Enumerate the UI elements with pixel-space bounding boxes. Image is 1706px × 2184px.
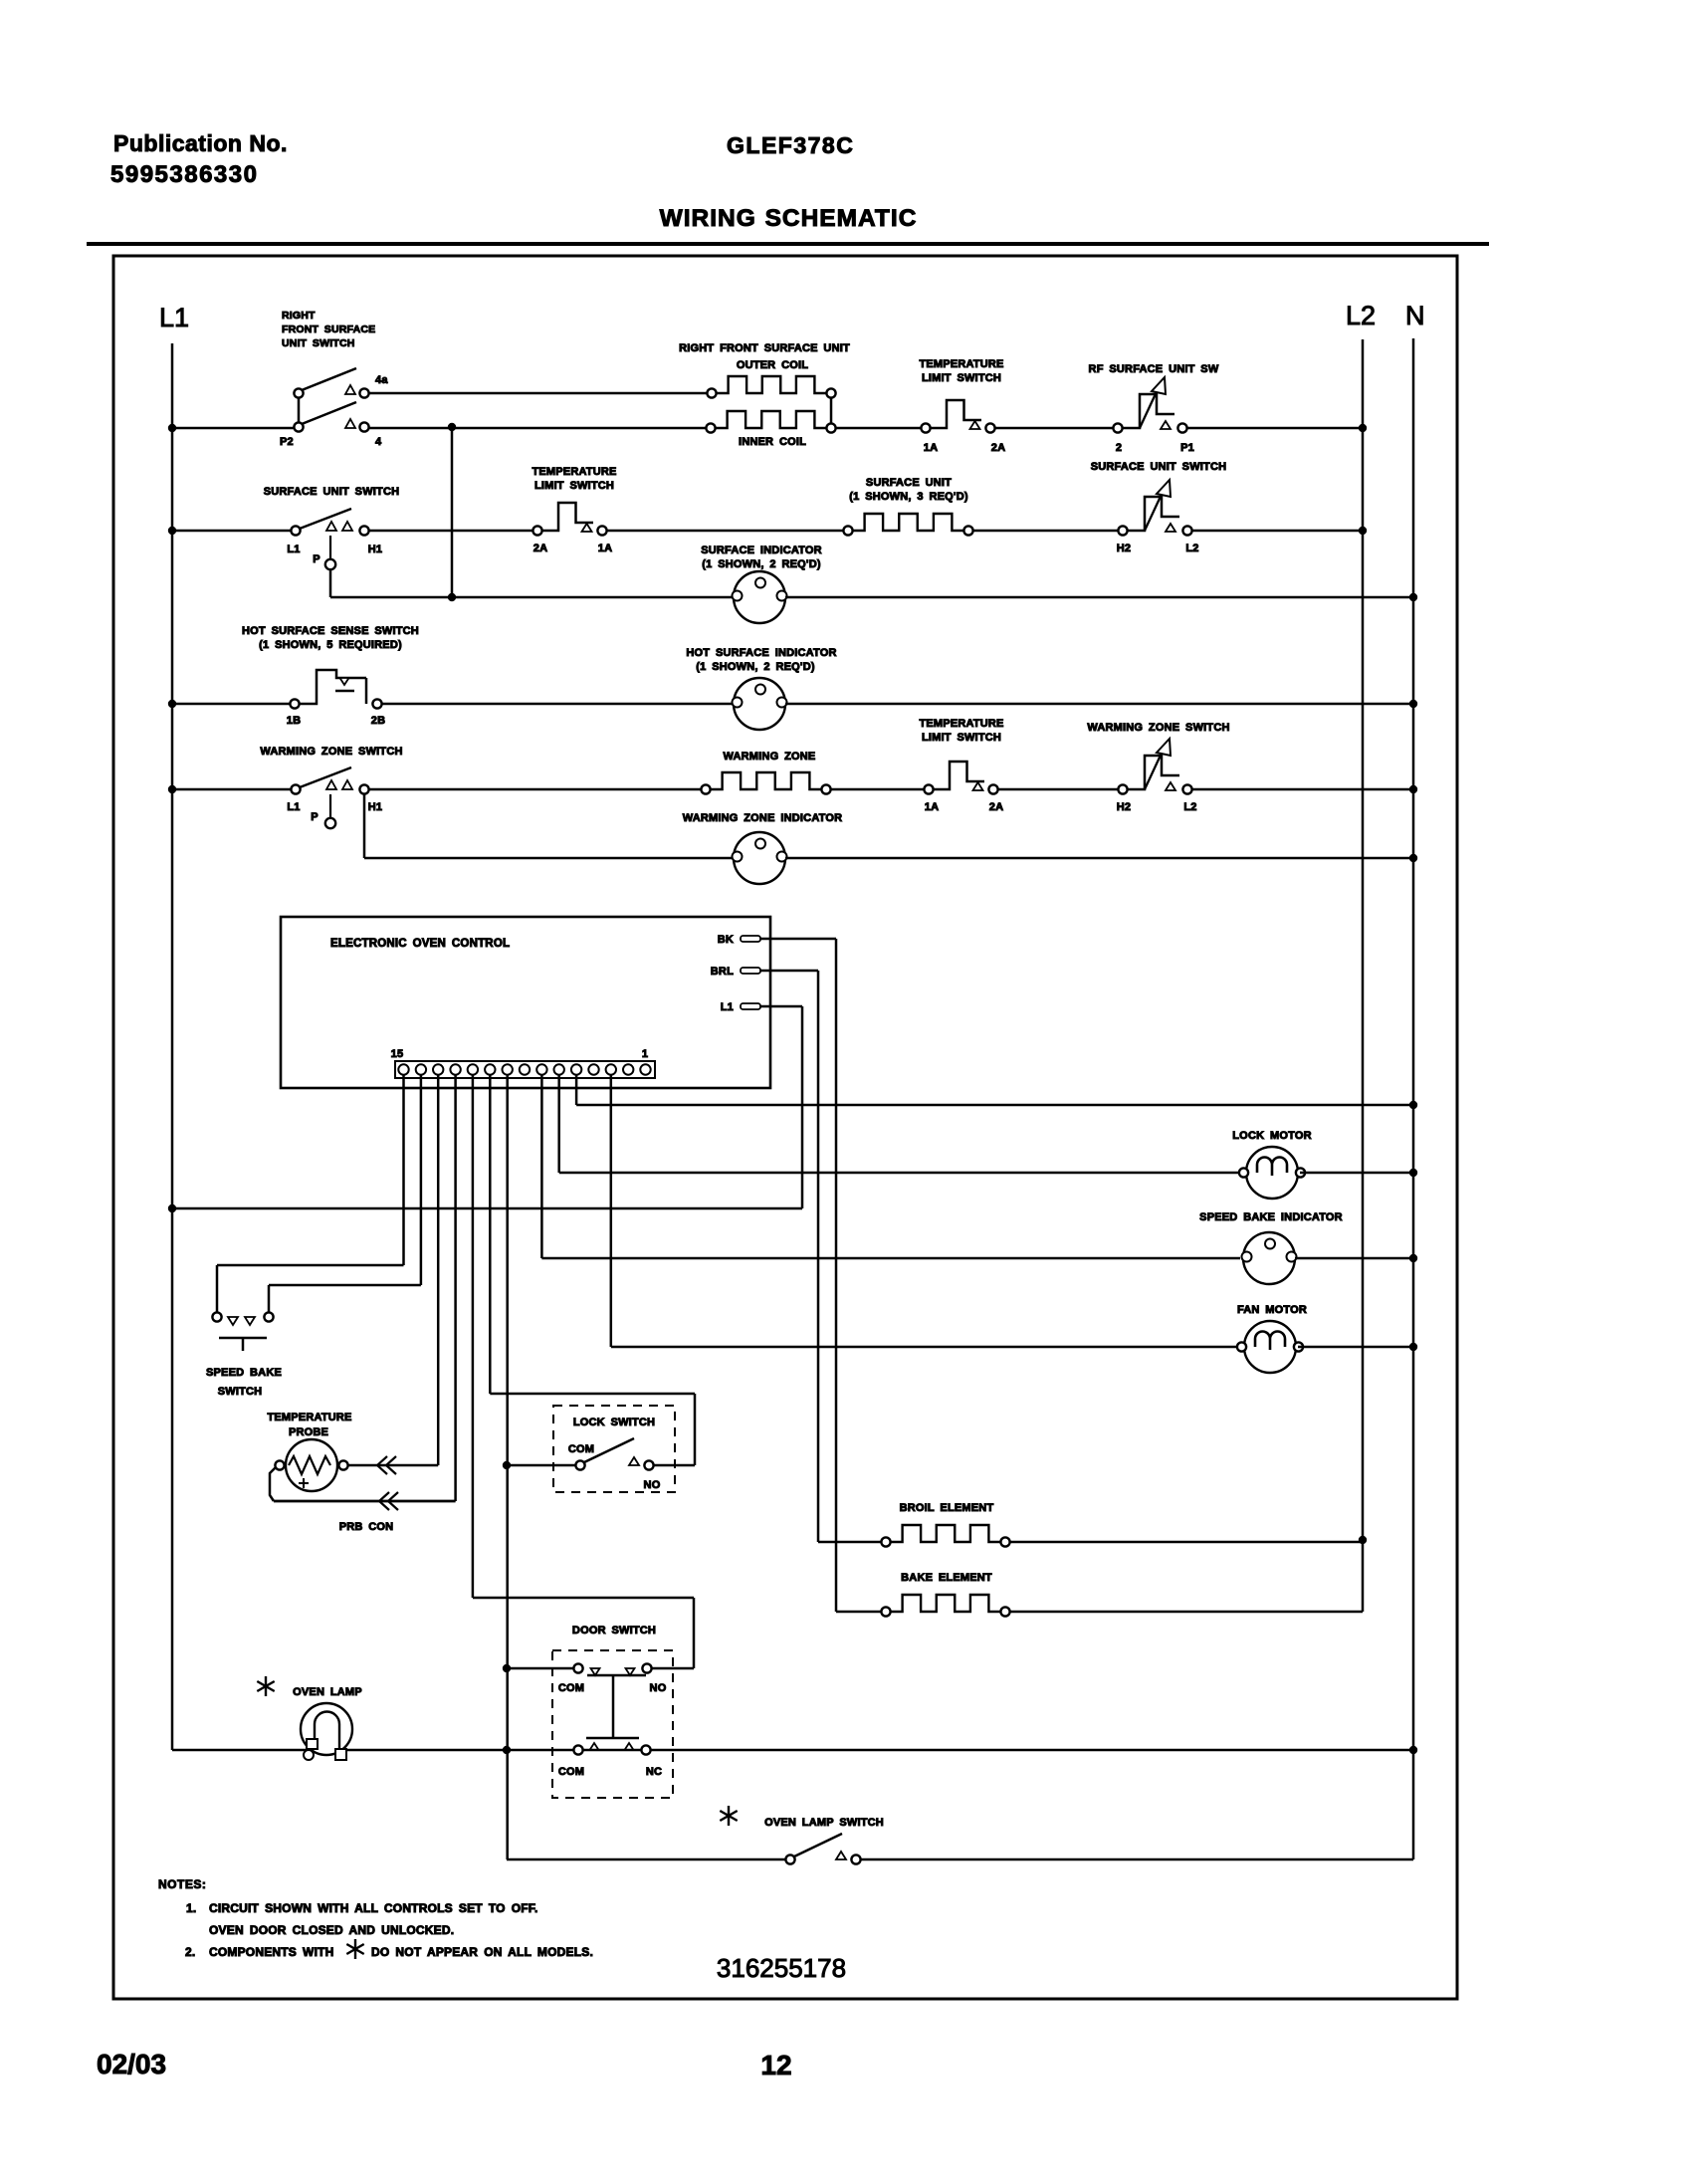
svg-text:OVEN LAMP: OVEN LAMP [293,1686,362,1698]
svg-text:SPEED BAKE: SPEED BAKE [206,1367,282,1379]
svg-text:UNIT SWITCH: UNIT SWITCH [282,337,355,349]
svg-text:OVEN DOOR CLOSED AND UNLOCKED.: OVEN DOOR CLOSED AND UNLOCKED. [209,1923,454,1937]
svg-text:2A: 2A [991,442,1005,454]
svg-text:OUTER COIL: OUTER COIL [737,359,808,371]
svg-text:HOT SURFACE SENSE SWITCH: HOT SURFACE SENSE SWITCH [242,625,419,637]
svg-text:TEMPERATURE: TEMPERATURE [919,358,1003,370]
svg-text:WARMING ZONE: WARMING ZONE [724,751,816,763]
svg-text:COMPONENTS WITH: COMPONENTS WITH [209,1945,334,1959]
svg-text:P2: P2 [280,436,294,448]
svg-text:4: 4 [375,436,382,448]
svg-text:BRL: BRL [711,966,734,978]
svg-text:(1 SHOWN, 2 REQ'D): (1 SHOWN, 2 REQ'D) [702,558,821,570]
svg-text:NOTES:: NOTES: [158,1877,206,1891]
svg-text:15: 15 [391,1048,404,1060]
svg-text:H2: H2 [1117,801,1131,813]
svg-text:1A: 1A [925,801,939,813]
svg-text:(1 SHOWN, 2 REQ'D): (1 SHOWN, 2 REQ'D) [696,661,815,673]
svg-text:LIMIT SWITCH: LIMIT SWITCH [922,372,1001,384]
svg-text:SURFACE INDICATOR: SURFACE INDICATOR [701,545,822,556]
svg-text:GLEF378C: GLEF378C [727,132,854,158]
svg-text:TEMPERATURE: TEMPERATURE [267,1412,351,1423]
svg-text:ELECTRONIC OVEN CONTROL: ELECTRONIC OVEN CONTROL [330,938,510,950]
svg-text:L1: L1 [287,544,300,555]
svg-text:L2: L2 [1185,543,1198,554]
svg-text:HOT SURFACE INDICATOR: HOT SURFACE INDICATOR [686,647,836,659]
svg-text:LOCK MOTOR: LOCK MOTOR [1232,1130,1311,1142]
svg-text:BAKE ELEMENT: BAKE ELEMENT [901,1572,992,1584]
svg-text:NO: NO [650,1682,667,1694]
svg-text:FRONT SURFACE: FRONT SURFACE [282,324,375,335]
svg-text:L1: L1 [287,801,300,813]
svg-text:COM: COM [558,1682,584,1694]
svg-text:P: P [313,553,320,565]
svg-text:2.: 2. [185,1945,195,1959]
svg-text:COM: COM [558,1766,584,1778]
svg-text:SURFACE UNIT SWITCH: SURFACE UNIT SWITCH [264,486,400,498]
svg-text:LIMIT SWITCH: LIMIT SWITCH [922,732,1001,744]
svg-text:WARMING ZONE SWITCH: WARMING ZONE SWITCH [1087,722,1229,734]
svg-text:2B: 2B [371,715,385,727]
svg-text:RIGHT: RIGHT [282,310,316,322]
svg-text:2A: 2A [533,543,547,554]
svg-text:2: 2 [1116,442,1122,454]
svg-text:(1 SHOWN, 5 REQUIRED): (1 SHOWN, 5 REQUIRED) [259,639,402,651]
svg-text:L1: L1 [721,1001,734,1013]
svg-text:PROBE: PROBE [289,1426,328,1438]
svg-text:12: 12 [760,2050,791,2080]
svg-text:1.: 1. [186,1901,196,1915]
svg-text:1A: 1A [924,442,938,454]
svg-text:H2: H2 [1117,543,1131,554]
svg-text:BK: BK [718,934,734,946]
svg-text:INNER COIL: INNER COIL [739,436,806,448]
svg-text:COM: COM [568,1443,594,1455]
svg-text:5995386330: 5995386330 [110,161,258,188]
svg-text:P: P [311,811,319,823]
svg-text:SURFACE UNIT: SURFACE UNIT [866,477,952,489]
svg-text:RIGHT FRONT SURFACE UNIT: RIGHT FRONT SURFACE UNIT [679,342,850,354]
svg-text:BROIL ELEMENT: BROIL ELEMENT [900,1502,994,1514]
svg-text:SWITCH: SWITCH [218,1386,263,1398]
svg-text:TEMPERATURE: TEMPERATURE [919,718,1003,730]
svg-text:4a: 4a [375,374,388,386]
svg-text:N: N [1405,301,1425,330]
svg-text:1A: 1A [598,543,612,554]
svg-text:WIRING SCHEMATIC: WIRING SCHEMATIC [660,205,918,232]
svg-text:SPEED BAKE INDICATOR: SPEED BAKE INDICATOR [1199,1211,1343,1223]
svg-text:(1 SHOWN, 3 REQ'D): (1 SHOWN, 3 REQ'D) [849,491,968,503]
svg-text:OVEN LAMP SWITCH: OVEN LAMP SWITCH [764,1817,884,1829]
svg-text:Publication No.: Publication No. [113,130,288,156]
svg-text:2A: 2A [989,801,1003,813]
svg-text:H1: H1 [368,544,382,555]
svg-text:WARMING ZONE INDICATOR: WARMING ZONE INDICATOR [683,812,843,824]
svg-text:NC: NC [646,1766,662,1778]
svg-text:WARMING ZONE SWITCH: WARMING ZONE SWITCH [260,746,402,758]
svg-text:RF SURFACE UNIT SW: RF SURFACE UNIT SW [1089,363,1219,375]
svg-text:LOCK SWITCH: LOCK SWITCH [573,1417,655,1428]
svg-text:L1: L1 [159,303,189,332]
svg-text:NO: NO [644,1479,661,1491]
svg-text:1B: 1B [287,715,301,727]
svg-text:H1: H1 [368,801,382,813]
svg-text:DO NOT APPEAR ON ALL MODELS.: DO NOT APPEAR ON ALL MODELS. [371,1945,593,1959]
svg-text:316255178: 316255178 [717,1953,846,1983]
svg-text:1: 1 [642,1048,648,1060]
svg-text:PRB CON: PRB CON [339,1521,394,1533]
svg-text:LIMIT SWITCH: LIMIT SWITCH [534,480,614,492]
svg-text:DOOR SWITCH: DOOR SWITCH [572,1625,656,1637]
svg-text:CIRCUIT SHOWN WITH ALL CONTROL: CIRCUIT SHOWN WITH ALL CONTROLS SET TO O… [209,1901,538,1915]
svg-text:TEMPERATURE: TEMPERATURE [532,466,616,478]
svg-text:02/03: 02/03 [97,2049,166,2079]
svg-text:SURFACE UNIT SWITCH: SURFACE UNIT SWITCH [1091,461,1227,473]
svg-text:L2: L2 [1346,301,1376,330]
svg-text:FAN MOTOR: FAN MOTOR [1237,1304,1307,1316]
svg-text:P1: P1 [1180,442,1194,454]
svg-text:L2: L2 [1183,801,1196,813]
